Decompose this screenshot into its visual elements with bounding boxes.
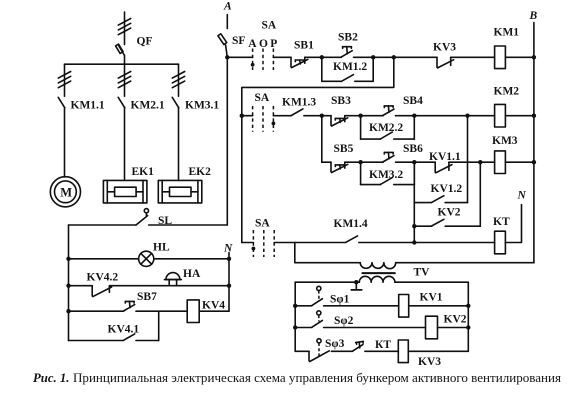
contact KV3 (NC) xyxy=(437,57,454,68)
ground xyxy=(351,282,361,290)
coil KV3 xyxy=(398,340,408,363)
switch SF xyxy=(218,34,227,58)
svg-text:KM1.3: KM1.3 xyxy=(282,97,316,109)
wire A stub xyxy=(226,15,228,29)
pushbutton SB5 (NC) xyxy=(331,162,348,172)
svg-text:SA: SA xyxy=(262,20,277,32)
three-phase slashes on QF line xyxy=(118,19,130,35)
node row1-a xyxy=(320,55,324,59)
contact KV4.1 (NO, latch) xyxy=(69,311,159,340)
pushbutton SB7 (NO) xyxy=(69,301,135,311)
wire KM1.3 to node xyxy=(304,115,322,117)
svg-text:О: О xyxy=(259,38,268,50)
svg-text:KV1: KV1 xyxy=(420,291,443,303)
coil KV1 xyxy=(399,295,409,318)
svg-text:HA: HA xyxy=(183,268,201,280)
svg-text:EK1: EK1 xyxy=(132,166,155,178)
wire KV2 to rail xyxy=(438,327,469,329)
wire rail x414 row3 to KT row xyxy=(413,162,415,242)
wire SB5 to node xyxy=(345,161,361,163)
svg-text:KV4: KV4 xyxy=(202,300,225,312)
coil KV4 xyxy=(187,300,199,323)
wire SB3 to node xyxy=(345,115,361,117)
contact KV1.1 (NC) xyxy=(435,162,452,173)
wire SL row xyxy=(69,224,228,226)
contact KM2.2 (parallel loop) xyxy=(361,116,415,139)
limit switch SL xyxy=(136,209,148,225)
svg-text:KM2.2: KM2.2 xyxy=(369,122,403,134)
svg-text:EK2: EK2 xyxy=(189,166,212,178)
svg-text:SB2: SB2 xyxy=(338,32,358,44)
wire HL row xyxy=(69,258,230,260)
node row2-c xyxy=(412,114,416,118)
contact KV1.2 (NO) xyxy=(414,116,467,203)
wire B line xyxy=(533,23,535,263)
wire coil KM3 to B xyxy=(505,161,534,163)
wire secondary left xyxy=(295,281,359,283)
svg-text:KV3: KV3 xyxy=(433,42,456,54)
wire KM1.4 to KT coil xyxy=(359,242,495,244)
svg-text:Принципиальная электрическая с: Принципиальная электрическая схема управ… xyxy=(73,370,561,385)
wire Sphi3 to KT contact xyxy=(331,350,352,352)
svg-text:KM1.4: KM1.4 xyxy=(334,218,368,230)
transformer TV primary winding xyxy=(360,263,395,269)
wire SB7 to coil KV4 xyxy=(136,310,187,312)
svg-text:SB5: SB5 xyxy=(334,143,354,155)
svg-text:Sφ2: Sφ2 xyxy=(334,315,354,327)
contact KM1.1 xyxy=(58,97,65,177)
wire node to SB4 xyxy=(361,115,383,117)
wire KV3 to rail xyxy=(408,350,468,352)
node row3-b xyxy=(412,160,416,164)
node row3-c xyxy=(478,160,482,164)
wire SB2 right xyxy=(354,56,374,58)
svg-text:KM2.1: KM2.1 xyxy=(131,100,165,112)
svg-text:KM3.1: KM3.1 xyxy=(185,100,219,112)
svg-text:Рис. 1.: Рис. 1. xyxy=(33,370,70,385)
motor M xyxy=(50,177,80,207)
wire Sphi1 to coil KV1 xyxy=(324,305,399,307)
wire to SB3 xyxy=(322,115,331,117)
svg-text:KV1.2: KV1.2 xyxy=(431,183,463,195)
wire SB1 to node xyxy=(305,56,322,58)
contact KV2 (NO) xyxy=(414,162,480,226)
svg-text:SB4: SB4 xyxy=(403,95,423,107)
wire row2 to SA xyxy=(242,115,253,117)
wire primary branch xyxy=(295,243,360,263)
wire Sphi2 to coil KV2 xyxy=(324,327,426,329)
three-phase slashes branch 1 xyxy=(58,72,70,88)
three-phase slashes branch 2 xyxy=(118,72,130,88)
wire row1 to SA xyxy=(227,56,252,58)
svg-text:KV1.1: KV1.1 xyxy=(429,151,461,163)
wire row3 start xyxy=(322,161,331,163)
svg-text:KV3: KV3 xyxy=(418,356,441,368)
wire branch 1 xyxy=(64,64,66,96)
wire primary to B bottom xyxy=(396,262,534,264)
node row2-a xyxy=(320,114,324,118)
node row2-b xyxy=(358,114,362,118)
sensor Sphi2 xyxy=(295,311,322,328)
bell HA xyxy=(165,273,182,286)
svg-text:KM1: KM1 xyxy=(494,27,520,39)
contact KV4.2 (NC) xyxy=(69,286,112,297)
svg-text:КТ: КТ xyxy=(375,339,391,351)
wire row2 to row3 drop xyxy=(321,116,323,163)
sensor Sphi3 (NC) xyxy=(295,339,329,362)
wire KT coil to N xyxy=(505,205,521,243)
coil KV2 xyxy=(426,316,438,339)
wire right rail xyxy=(467,282,469,351)
wire row1 to node c xyxy=(373,56,394,58)
wire QF supply drop xyxy=(124,12,126,45)
svg-text:SB7: SB7 xyxy=(137,291,157,303)
svg-text:KV4.1: KV4.1 xyxy=(108,324,140,336)
contact KM1.3 (NO) xyxy=(291,109,303,116)
pushbutton SB3 (NC) xyxy=(331,116,348,126)
svg-text:N: N xyxy=(223,242,233,254)
wire A-line down to SL xyxy=(226,57,228,225)
svg-text:A: A xyxy=(223,1,232,13)
wire KV4 to N rail xyxy=(199,310,229,312)
wire row2 to node d xyxy=(414,115,467,117)
pushbutton SB6 (NO) xyxy=(383,152,394,162)
wire HA row xyxy=(109,285,229,287)
wire row2 SA to KM1.3 xyxy=(273,115,291,117)
svg-text:KT: KT xyxy=(493,216,510,228)
wire KV1.1 to node xyxy=(449,161,480,163)
svg-text:KM1.1: KM1.1 xyxy=(71,100,105,112)
svg-text:N: N xyxy=(517,190,527,202)
svg-text:SB6: SB6 xyxy=(403,143,423,155)
node row2 left xyxy=(240,114,244,118)
heater EK1 xyxy=(103,180,146,203)
wire left rail xyxy=(294,282,296,351)
wire secondary right xyxy=(395,281,468,283)
wire coil to B xyxy=(505,56,534,58)
wire SA to KM1.4 xyxy=(274,242,346,244)
wire branch 2 xyxy=(124,64,126,96)
contact KM1.4 (NO) xyxy=(346,236,358,242)
sensor Sphi1 xyxy=(295,286,322,306)
node row2-d xyxy=(465,114,469,118)
pushbutton SB4 (NO) xyxy=(383,106,394,116)
svg-text:SB3: SB3 xyxy=(331,95,351,107)
svg-text:KV2: KV2 xyxy=(438,207,461,219)
svg-text:SA: SA xyxy=(255,92,270,104)
contact KM1.2 (parallel loop) xyxy=(322,57,373,81)
three-phase slashes branch 3 xyxy=(172,72,184,88)
coil KT xyxy=(495,231,506,254)
svg-text:QF: QF xyxy=(137,36,153,48)
transformer TV secondary winding xyxy=(359,276,395,282)
svg-text:SB1: SB1 xyxy=(294,40,314,52)
wire SB4 right xyxy=(396,115,415,117)
svg-text:Р: Р xyxy=(270,38,277,50)
node row1-b xyxy=(371,55,375,59)
contact KM3.1 xyxy=(172,97,179,180)
svg-text:KM3: KM3 xyxy=(492,135,518,147)
svg-text:Sφ1: Sφ1 xyxy=(330,294,350,306)
contact KT (NO) xyxy=(353,341,364,351)
wire row1 SA to SB1 xyxy=(273,56,291,58)
node row1-c xyxy=(392,55,396,59)
wire N rail xyxy=(228,253,230,312)
node row3-a xyxy=(358,160,362,164)
wire left rail xyxy=(68,225,70,341)
wire node to SB2 xyxy=(322,56,342,58)
transformer core xyxy=(362,272,394,274)
wire node to SB6 xyxy=(361,161,383,163)
wire branch 3 xyxy=(178,64,180,96)
wire row1 to KV3 xyxy=(394,56,437,58)
contact KM3.2 (parallel loop) xyxy=(361,162,415,184)
wire KV3 to coil xyxy=(451,56,495,58)
svg-text:KV2: KV2 xyxy=(444,314,467,326)
svg-text:SA: SA xyxy=(255,218,270,230)
wire bus xyxy=(65,63,179,65)
svg-text:SF: SF xyxy=(232,35,245,47)
lamp HL xyxy=(139,251,154,266)
pushbutton SB1 (NC) xyxy=(291,57,308,67)
svg-text:HL: HL xyxy=(153,242,170,254)
svg-text:Sφ3: Sφ3 xyxy=(325,338,345,350)
node secondary tap xyxy=(354,280,358,284)
wire coil KM2 to B xyxy=(505,115,534,117)
wire KT contact to coil KV3 xyxy=(365,350,398,352)
wire row3 to KV1.1 xyxy=(414,161,435,163)
heater EK2 xyxy=(158,180,202,203)
pushbutton SB2 (NO) xyxy=(341,47,352,57)
coil KM2 xyxy=(495,104,506,127)
svg-text:B: B xyxy=(529,10,538,22)
svg-text:KM1.2: KM1.2 xyxy=(333,61,367,73)
svg-text:KM2: KM2 xyxy=(494,85,520,97)
contact KM2.1 xyxy=(118,97,125,180)
circuit breaker QF xyxy=(116,44,125,64)
svg-text:М: М xyxy=(60,185,72,199)
wire SB6 right xyxy=(396,161,415,163)
wire to coil KM3 xyxy=(480,161,494,163)
svg-text:KM3.2: KM3.2 xyxy=(369,169,403,181)
svg-text:TV: TV xyxy=(414,267,431,279)
wire KV1 to rail xyxy=(409,305,469,307)
coil KM3 xyxy=(495,151,506,174)
svg-text:KV4.2: KV4.2 xyxy=(87,272,119,284)
node junction SF xyxy=(225,55,229,59)
svg-text:А: А xyxy=(248,38,257,50)
wire box top xyxy=(242,57,394,242)
wire KT row left xyxy=(242,242,254,244)
wire to coil KM2 xyxy=(468,115,495,117)
coil KM1 xyxy=(495,46,506,69)
